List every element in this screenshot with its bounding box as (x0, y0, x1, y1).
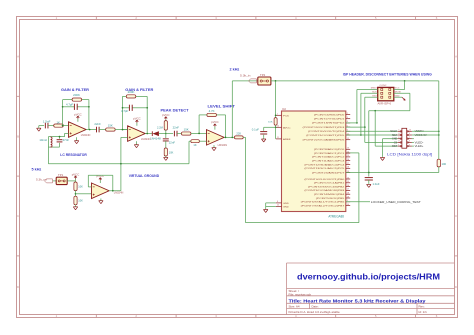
svg-text:pVCC: pVCC (211, 121, 219, 124)
svg-text:15: 15 (347, 181, 349, 183)
svg-text:22K: 22K (236, 132, 241, 135)
svg-text:GND: GND (283, 207, 289, 209)
svg-text:200K: 200K (128, 90, 135, 94)
svg-text:RST: RST (392, 144, 398, 148)
svg-text:0.1uF: 0.1uF (252, 128, 260, 131)
svg-text:8: 8 (398, 137, 399, 139)
svg-text:SCLK: SCLK (390, 129, 397, 133)
svg-text:12: 12 (347, 138, 349, 140)
svg-text:7: 7 (409, 137, 410, 139)
svg-text:TP1: TP1 (58, 174, 64, 177)
svg-text:21: 21 (277, 137, 279, 139)
svg-text:(PCINT11/ADC3)PC3: (PCINT11/ADC3)PC3 (312, 160, 346, 163)
svg-text:10K: 10K (78, 186, 83, 189)
svg-text:14: 14 (347, 177, 349, 179)
svg-text:10mH: 10mH (39, 138, 47, 142)
svg-text:LC RESONATOR: LC RESONATOR (60, 152, 87, 157)
svg-text:D: D (17, 285, 19, 289)
svg-text:5.3k_in: 5.3k_in (240, 74, 251, 77)
svg-text:Title: Heart Rate Monitor 5.3: Title: Heart Rate Monitor 5.3 kHz Receiv… (289, 298, 427, 303)
svg-text:5 kHz: 5 kHz (32, 166, 42, 171)
svg-text:MOSI: MOSI (395, 91, 401, 93)
svg-text:22nF: 22nF (173, 126, 180, 130)
svg-text:1: 1 (398, 144, 399, 146)
svg-text:CON2: CON2 (380, 85, 388, 87)
svg-text:(PCINT3/OC2A/MOSI)PB3: (PCINT3/OC2A/MOSI)PB3 (304, 189, 345, 192)
svg-text:AVR-ISP-6: AVR-ISP-6 (378, 103, 392, 106)
svg-text:5: 5 (398, 130, 399, 132)
svg-text:D: D (455, 285, 457, 289)
svg-text:26: 26 (347, 159, 349, 161)
svg-text:1K: 1K (57, 120, 61, 124)
svg-text:(PCINT16/RXD)PD0: (PCINT16/RXD)PD0 (314, 114, 346, 116)
svg-text:2 kHz: 2 kHz (230, 66, 240, 71)
svg-text:(PCINT12/SDA/ADC4)PC4: (PCINT12/SDA/ADC4)PC4 (304, 163, 345, 166)
svg-text:GAIN & FILTER: GAIN & FILTER (61, 87, 89, 92)
svg-text:PEAK DETECT: PEAK DETECT (161, 107, 190, 112)
svg-text:IC2: IC2 (282, 108, 287, 111)
svg-text:24: 24 (347, 151, 349, 153)
svg-text:SCK: SCK (372, 91, 377, 93)
svg-text:(PCINT1/OC1A)PB1: (PCINT1/OC1A)PB1 (314, 182, 346, 185)
svg-text:10: 10 (409, 130, 411, 132)
svg-text:22nF: 22nF (169, 141, 176, 144)
svg-text:(PCINT22/OC0A/AIN0)PD6: (PCINT22/OC0A/AIN0)PD6 (303, 139, 346, 142)
svg-text:(PCINT4/MISO)PB4: (PCINT4/MISO)PB4 (314, 194, 346, 196)
svg-text:VLED+: VLED+ (415, 144, 424, 148)
svg-text:B: B (17, 134, 19, 138)
svg-text:1N4148: 1N4148 (150, 138, 161, 141)
svg-text:GND: GND (283, 203, 289, 205)
svg-text:MISO: MISO (371, 88, 377, 90)
svg-text:(PCINT19/OC2B/INT1)PD3: (PCINT19/OC2B/INT1)PD3 (303, 127, 346, 129)
svg-text:(PCINT17/TXD)PD1: (PCINT17/TXD)PD1 (314, 119, 346, 121)
svg-text:ISP HEADER. DISCONNECT BATTERI: ISP HEADER. DISCONNECT BATTERIES WHEN US… (343, 72, 432, 76)
svg-text:AVCC: AVCC (283, 126, 291, 129)
svg-text:(PCINT9/ADC1)PC1: (PCINT9/ADC1)PC1 (314, 152, 346, 155)
svg-text:(PCINT7/XTAL2/TOSC2)PB7: (PCINT7/XTAL2/TOSC2)PB7 (301, 204, 346, 207)
svg-text:ATMEGA88: ATMEGA88 (328, 214, 344, 218)
svg-text:8: 8 (277, 201, 278, 203)
svg-text:10K: 10K (78, 200, 83, 203)
svg-text:LM324N: LM324N (114, 192, 124, 195)
svg-text:27: 27 (347, 163, 349, 165)
svg-text:pVCC: pVCC (72, 173, 80, 176)
svg-text:(PCINT5/SCK)PB5: (PCINT5/SCK)PB5 (316, 198, 346, 200)
svg-text:(PCINT0/CLKO/ICP1)PB0: (PCINT0/CLKO/ICP1)PB0 (304, 179, 345, 181)
svg-text:1: 1 (277, 113, 278, 115)
svg-text:(PCINT18/INT0)PD2: (PCINT18/INT0)PD2 (312, 123, 346, 125)
svg-text:RST: RST (372, 95, 377, 97)
svg-text:Size: A4: Size: A4 (289, 305, 300, 309)
svg-text:2.2M: 2.2M (157, 126, 163, 129)
svg-text:LOCKER_USED_DURING_TEST: LOCKER_USED_DURING_TEST (371, 200, 421, 204)
svg-text:File: receiver.sch: File: receiver.sch (289, 292, 312, 296)
svg-text:(PCINT21/OC0B/T1)PD5: (PCINT21/OC0B/T1)PD5 (306, 135, 345, 137)
svg-text:LEVEL SHIFT: LEVEL SHIFT (208, 104, 236, 109)
svg-text:3: 3 (347, 117, 348, 119)
svg-text:17: 17 (347, 189, 349, 191)
svg-text:A: A (17, 55, 19, 59)
svg-text:dvernooy.github.io/projects/HR: dvernooy.github.io/projects/HRM (297, 273, 440, 282)
svg-text:LM324N: LM324N (81, 134, 91, 137)
svg-text:10: 10 (347, 204, 349, 206)
svg-text:GND: GND (392, 137, 397, 141)
svg-text:GND: GND (395, 95, 400, 97)
svg-text:VCC: VCC (395, 88, 400, 90)
svg-text:pVCC: pVCC (74, 113, 82, 116)
svg-text:2: 2 (409, 144, 410, 146)
svg-text:200K: 200K (73, 93, 80, 97)
svg-text:VIRTUAL GROUND: VIRTUAL GROUND (129, 173, 160, 178)
svg-text:(PCINT8/ADC0)PC0: (PCINT8/ADC0)PC0 (314, 148, 346, 151)
svg-text:(PCINT23/AIN1)PD7: (PCINT23/AIN1)PD7 (312, 171, 346, 174)
svg-text:4: 4 (398, 133, 399, 135)
svg-text:C: C (455, 214, 457, 218)
svg-text:(PCINT2/SS/OC1B)PB2: (PCINT2/SS/OC1B)PB2 (308, 186, 345, 188)
svg-text:6: 6 (409, 141, 410, 143)
svg-text:LM324N: LM324N (218, 144, 228, 147)
svg-text:15K: 15K (184, 128, 189, 132)
svg-text:3: 3 (398, 141, 399, 143)
svg-text:(PCINT6/XTAL1/TOSC1)PB6: (PCINT6/XTAL1/TOSC1)PB6 (301, 201, 346, 204)
svg-text:CS: CS (394, 140, 398, 144)
svg-text:4.7pF: 4.7pF (66, 103, 74, 107)
svg-text:20: 20 (277, 125, 279, 127)
svg-text:1.0uF: 1.0uF (373, 183, 381, 186)
svg-text:(PCINT13/SCL/ADC5)PC5: (PCINT13/SCL/ADC5)PC5 (304, 167, 345, 170)
svg-text:22nF: 22nF (94, 122, 101, 126)
svg-text:Rev:: Rev: (419, 305, 425, 309)
svg-text:1K: 1K (193, 144, 197, 147)
svg-text:(PCINT10/ADC2)PC2: (PCINT10/ADC2)PC2 (312, 156, 346, 159)
svg-text:pVCC: pVCC (133, 117, 141, 120)
svg-text:4.7pF: 4.7pF (121, 109, 129, 113)
svg-text:23: 23 (347, 148, 349, 150)
svg-text:(PCINT20/XCK/T0)PD4: (PCINT20/XCK/T0)PD4 (308, 131, 345, 133)
svg-text:LCD [Nokia 1100 dspl]: LCD [Nokia 1100 dspl] (387, 153, 432, 157)
svg-text:Date:: Date: (312, 305, 319, 309)
svg-text:pVCC: pVCC (162, 114, 170, 117)
svg-text:10K: 10K (169, 151, 174, 154)
svg-text:KiCad E.D.A. kicad 4.0.2+dfsg: KiCad E.D.A. kicad 4.0.2+dfsg1-stable (289, 310, 340, 314)
svg-text:22: 22 (277, 205, 279, 207)
svg-text:AREF: AREF (283, 138, 292, 141)
svg-text:1.5nF: 1.5nF (43, 119, 51, 123)
svg-text:15K: 15K (108, 124, 113, 128)
svg-text:10K: 10K (268, 121, 273, 123)
svg-text:28: 28 (347, 167, 349, 169)
svg-text:Id: 1/1: Id: 1/1 (419, 310, 428, 314)
svg-text:4.7K: 4.7K (209, 109, 215, 113)
svg-text:SDA: SDA (392, 133, 397, 137)
svg-text:C: C (17, 214, 19, 218)
svg-text:16: 16 (347, 185, 349, 187)
svg-text:19: 19 (347, 196, 349, 198)
svg-text:47nF: 47nF (63, 138, 70, 142)
svg-text:9: 9 (409, 133, 410, 135)
svg-text:18: 18 (347, 193, 349, 195)
svg-text:VLED-: VLED- (415, 140, 424, 144)
svg-text:TP2: TP2 (260, 74, 266, 77)
svg-text:2: 2 (347, 113, 348, 115)
svg-text:25: 25 (347, 155, 349, 157)
svg-text:100: 100 (442, 163, 447, 166)
svg-text:B: B (455, 134, 457, 138)
svg-text:A: A (455, 55, 457, 59)
